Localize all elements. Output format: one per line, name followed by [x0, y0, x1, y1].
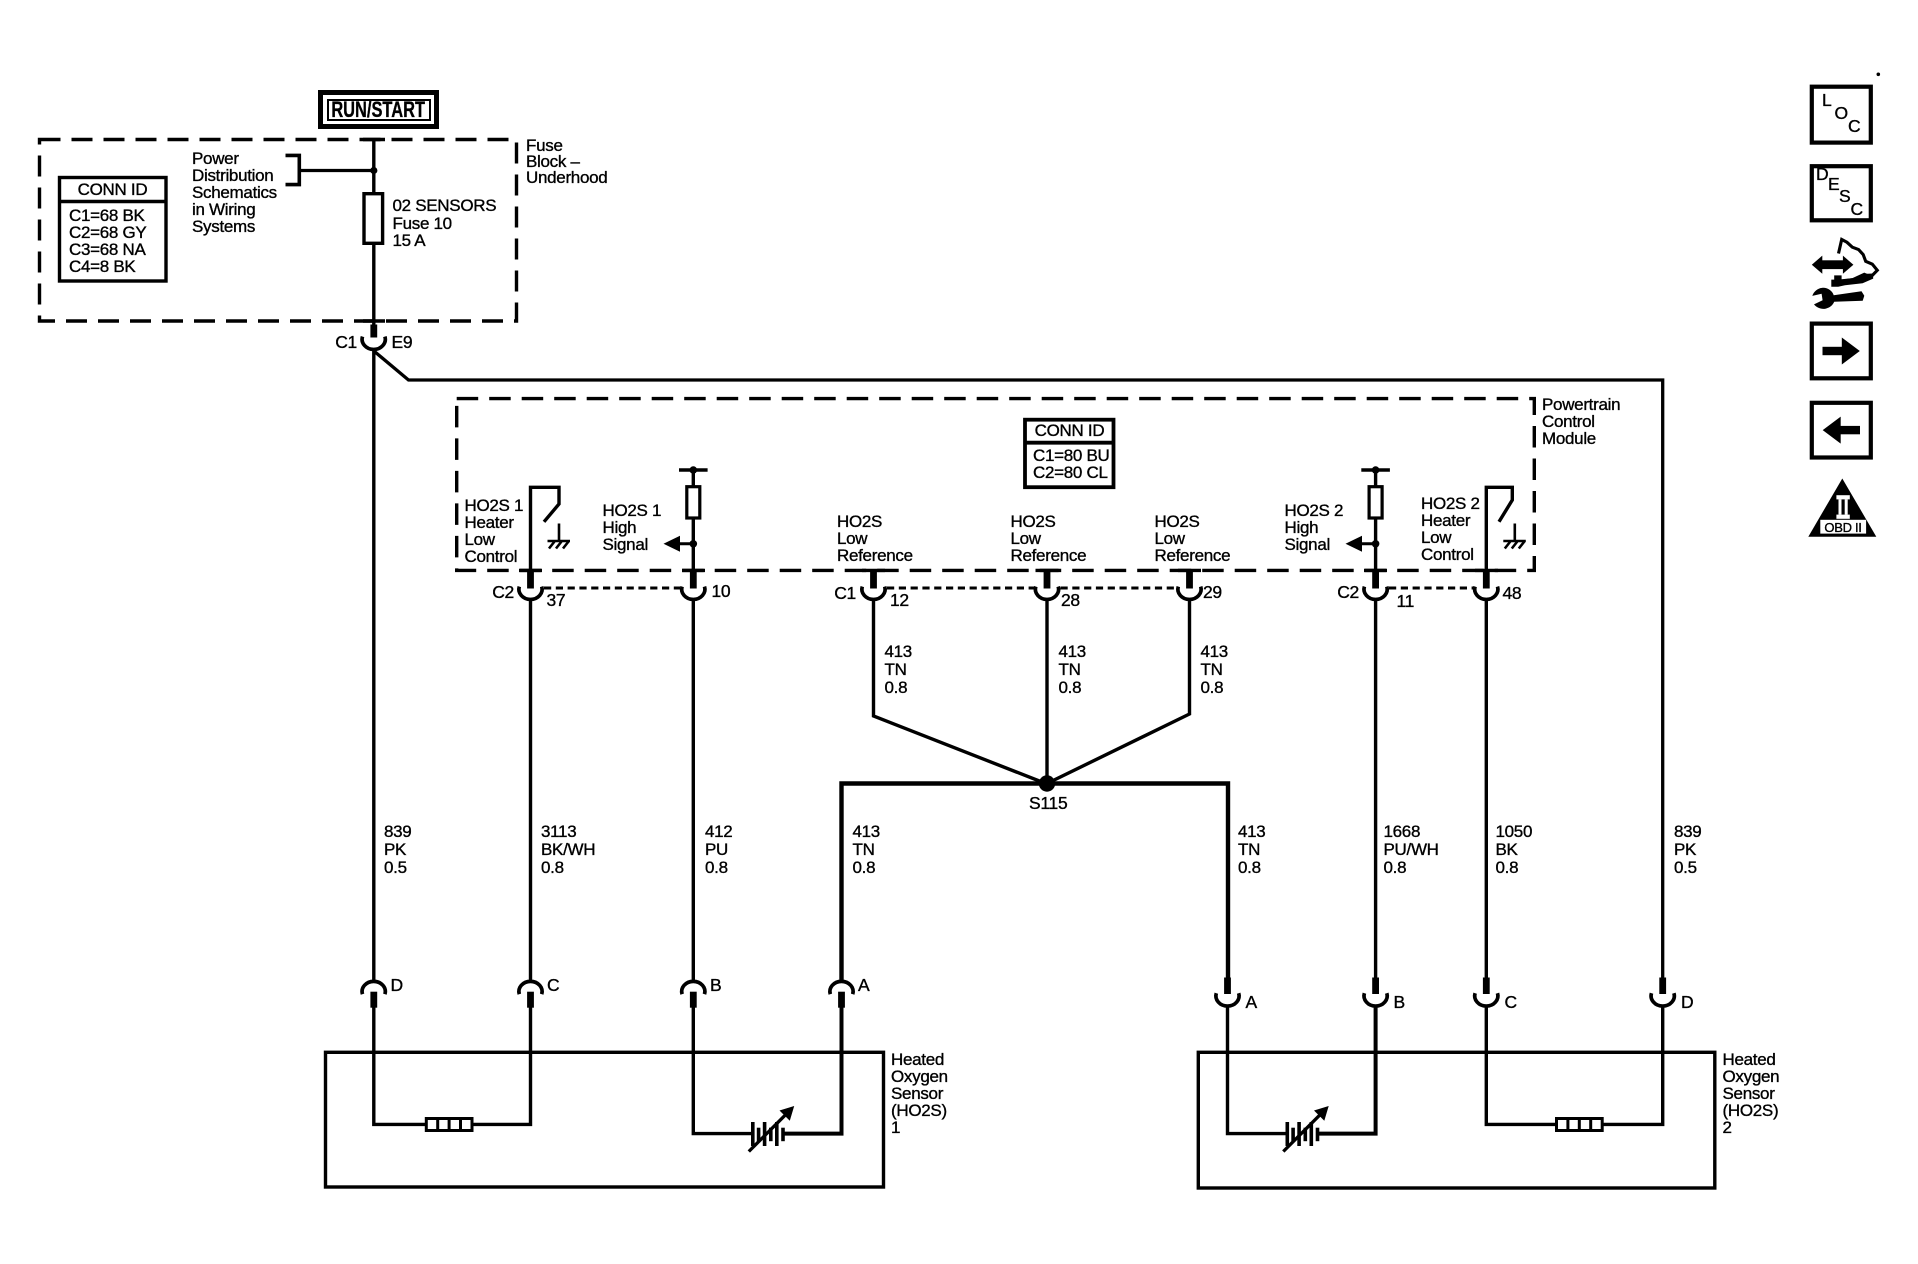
label HO2S1 pin C — [547, 977, 559, 995]
wire E9 diagonal branch to PCM side — [375, 352, 1663, 979]
label E9 — [392, 334, 413, 352]
label HO2S low reference (pin 29) — [1155, 513, 1231, 564]
label HO2S2 high signal — [1285, 502, 1344, 553]
reference bracket (power distribution schematics) — [286, 155, 300, 184]
connector C1 E9 pin stub — [370, 325, 377, 338]
HO2S2 connector socket arcs — [1216, 993, 1674, 1006]
label HO2S1 pin D — [391, 977, 403, 995]
icon forward arrow box — [1812, 324, 1871, 379]
HO2S1 connector pin stubs — [370, 992, 844, 1008]
HO2S2 heater low control driver switch — [1486, 487, 1512, 571]
splice bus wire 413 TN — [842, 784, 1229, 982]
HO2S2 heater element — [1557, 1119, 1603, 1131]
label wire 839 PK 0.5 (right) — [1674, 823, 1701, 877]
label wire 1668 PU/WH 0.8 — [1384, 823, 1439, 877]
icon LOC box — [1812, 87, 1871, 143]
wire 413 TN pin28 to splice — [1045, 600, 1048, 784]
label wire 3113 BK/WH 0.8 — [541, 823, 595, 877]
label wire 413 TN 0.8 (to HO2S1 A) — [853, 823, 880, 877]
terminal dot — [1372, 466, 1380, 474]
HO2S2 pin B internal wire — [1319, 1006, 1376, 1134]
connector group dotted links — [544, 587, 1474, 590]
icon text DESC — [1816, 166, 1828, 183]
connector C1 E9 socket arc — [362, 337, 385, 350]
wire 413 TN pin12 to splice — [874, 600, 1048, 785]
label CONN ID header (fuse block) — [59, 181, 166, 198]
label pin 48 — [1503, 585, 1522, 603]
connector id table box (fuse block) — [60, 178, 167, 282]
label connector id lines (fuse block) — [69, 207, 146, 275]
label pin 11 — [1397, 593, 1415, 611]
wire 3113 BK/WH pin37 to HO2S1 C — [529, 600, 532, 982]
icon back arrow box — [1812, 403, 1871, 458]
label HO2S2 pin C — [1505, 994, 1517, 1012]
label HO2S2 heater low control — [1421, 495, 1480, 563]
label splice S115 — [1029, 795, 1067, 813]
wire fuse to connector C1 E9 — [372, 243, 375, 326]
wire 413 TN pin29 to splice — [1047, 600, 1190, 784]
label pin 10 — [712, 583, 731, 601]
wire resistor to pin 10 — [692, 518, 695, 572]
label C2 (pin 37) — [466, 584, 514, 602]
connector id table box (PCM) — [1025, 420, 1114, 488]
edge dashes at pin crossings (PCM bottom edge) — [363, 140, 1498, 571]
power feed box RUN/START — [318, 90, 439, 129]
PCM pin socket arcs row — [519, 587, 1498, 600]
label heated oxygen sensor 1 — [891, 1051, 948, 1136]
HO2S2 variable arrow — [1283, 1113, 1322, 1152]
fuse block underhood dashed box — [40, 140, 517, 322]
label HO2S2 pin A — [1246, 994, 1257, 1012]
HO2S1 heater element — [426, 1119, 472, 1131]
HO2S1 pin C internal wire — [471, 1007, 531, 1124]
icon wiring/repair (arrows and wrench) — [1812, 256, 1854, 274]
label HO2S1 pin A — [858, 977, 869, 995]
label heated oxygen sensor 2 — [1723, 1051, 1780, 1136]
HO2S2 connector pin stubs (A B C D) — [1224, 978, 1666, 995]
ground (HO2S2 heater driver) — [1503, 524, 1526, 549]
wire RUN/START down to fuse — [372, 140, 375, 195]
heated oxygen sensor 1 box — [326, 1052, 884, 1187]
signal direction arrow (HO2S2) — [1358, 542, 1375, 545]
HO2S1 pin B internal wire — [693, 1007, 752, 1134]
HO2S2 high signal pull-up terminal bar — [1361, 468, 1390, 471]
HO2S1 connector arcs (D C B A) — [362, 981, 853, 994]
label wire 412 PU 0.8 — [705, 823, 732, 877]
label HO2S low reference (pin 28) — [1011, 513, 1087, 564]
HO2S1 pin D internal wire — [374, 1007, 427, 1124]
icon DESC box — [1812, 166, 1871, 220]
HO2S1 variable arrow — [749, 1113, 788, 1152]
label C1 (pin 12) — [808, 585, 856, 603]
label C1 (E9 connector) — [309, 334, 357, 352]
label fuse 02 SENSORS — [393, 197, 497, 250]
wire 412 PU pin10 to HO2S1 B — [692, 600, 695, 982]
label C2 (pin 11) — [1311, 584, 1359, 602]
label wire 413 TN 0.8 (pin 12) — [885, 643, 912, 697]
HO2S2 pin C internal wire — [1486, 1006, 1557, 1124]
junction dot (HO2S1 high signal) — [690, 540, 698, 548]
HO2S1 high signal pull-up terminal bar — [679, 468, 708, 471]
label pin 29 — [1203, 584, 1222, 602]
label connector id lines (PCM) — [1033, 447, 1110, 481]
label HO2S1 pin B — [710, 977, 721, 995]
label wire 413 TN 0.8 (pin 28) — [1059, 643, 1086, 697]
wire E9 down to HO2S1 pin D (circuit 839 PK) — [372, 351, 375, 982]
label HO2S1 heater low control — [465, 497, 524, 565]
label HO2S1 high signal — [603, 502, 662, 553]
ground (HO2S1 heater driver) — [548, 524, 571, 549]
junction dot (HO2S2 high signal) — [1372, 540, 1380, 548]
label pin 12 — [890, 592, 909, 610]
wire 1050 BK pin48 to HO2S2 C — [1485, 600, 1488, 979]
HO2S1 sensing element plates — [753, 1122, 783, 1146]
resistor R2 (HO2S2 high signal) — [1369, 487, 1382, 518]
label powertrain control module — [1542, 396, 1620, 447]
resistor R1 (HO2S1 high signal) — [687, 487, 700, 518]
label power distribution reference — [192, 150, 277, 235]
wire bar to resistor — [692, 470, 695, 487]
splice S115 dot — [1039, 775, 1055, 791]
label CONN ID header (PCM) — [1025, 422, 1114, 439]
powertrain control module dashed box — [457, 399, 1535, 571]
signal direction arrow (HO2S1) — [676, 542, 693, 545]
fuse F10 02 SENSORS body — [364, 194, 383, 244]
HO2S1 pin A internal wire — [784, 1007, 842, 1134]
icon text LOC — [1822, 92, 1831, 109]
icon text OBD II — [1820, 519, 1866, 536]
label HO2S low reference (pin 12) — [837, 513, 913, 564]
back arrow — [1837, 426, 1860, 434]
HO2S1 heater low control driver switch — [531, 487, 560, 571]
terminal dot — [690, 466, 698, 474]
heated oxygen sensor 2 box — [1198, 1052, 1715, 1188]
label wire 839 PK 0.5 (left) — [384, 823, 411, 877]
label pin 37 — [547, 592, 566, 610]
PCM pin stubs row — [527, 572, 1490, 589]
HO2S2 pin D internal wire — [1601, 1006, 1663, 1124]
label fuse block underhood — [526, 138, 607, 185]
wire from bracket to RUN/START feed — [299, 169, 374, 172]
junction dot at feed wire — [370, 167, 377, 174]
stray dot — [1877, 73, 1881, 77]
HO2S2 sensing element plates — [1287, 1122, 1317, 1146]
label wire 413 TN 0.8 (pin 29) — [1201, 643, 1228, 697]
wire 1668 PU/WH pin11 to HO2S2 B — [1374, 600, 1377, 979]
label pin 28 — [1061, 592, 1080, 610]
HO2S2 pin A internal wire — [1228, 1006, 1288, 1134]
label wire 413 TN 0.8 (to HO2S2 A) — [1238, 823, 1265, 877]
label HO2S2 pin D — [1681, 994, 1693, 1012]
forward arrow — [1823, 347, 1846, 355]
icon OBD II triangle — [1808, 479, 1876, 537]
wire resistor to pin 11 — [1374, 518, 1377, 572]
wire bar to resistor — [1374, 470, 1377, 487]
label HO2S2 pin B — [1394, 994, 1405, 1012]
label wire 1050 BK 0.8 — [1496, 823, 1533, 877]
